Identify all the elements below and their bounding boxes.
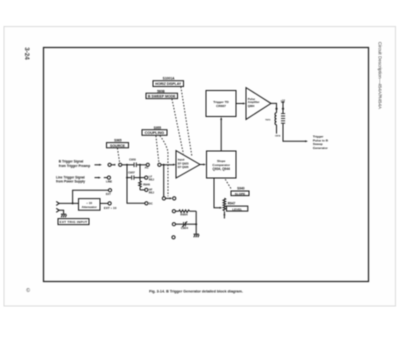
svg-text:R947: R947 [228, 202, 236, 206]
svg-text:SOURCE: SOURCE [110, 144, 126, 148]
svg-text:from Trigger Preamp: from Trigger Preamp [59, 164, 90, 168]
svg-text:from Power Supply: from Power Supply [56, 179, 85, 183]
svg-text:©: © [26, 287, 30, 294]
svg-text:LINE: LINE [106, 179, 112, 183]
svg-text:DC: DC [149, 201, 153, 205]
svg-text:HORIZ DISPLAY: HORIZ DISPLAY [155, 82, 182, 86]
svg-text:S940: S940 [237, 187, 245, 191]
svg-text:B SWEEP MODE: B SWEEP MODE [148, 95, 176, 99]
svg-text:REJ: REJ [149, 191, 155, 195]
svg-text:Generator: Generator [313, 146, 329, 150]
svg-text:S955: S955 [154, 126, 162, 130]
svg-text:Q884: Q884 [248, 104, 255, 108]
svg-text:C950: C950 [129, 158, 136, 162]
svg-text:LEVEL: LEVEL [232, 207, 242, 211]
svg-text:EXT: EXT [106, 193, 111, 196]
svg-text:R904: R904 [180, 212, 188, 216]
svg-text:AC: AC [145, 166, 149, 170]
svg-text:Circuit Description—454A/R454A: Circuit Description—454A/R454A [378, 42, 383, 110]
svg-text:Fig. 3-14. B Trigger Generator: Fig. 3-14. B Trigger Generator detailed … [149, 289, 243, 293]
svg-text:COUPLING: COUPLING [145, 131, 165, 135]
svg-text:C904: C904 [181, 226, 189, 230]
svg-text:Q934, Q944: Q934, Q944 [213, 167, 231, 171]
svg-text:EXT TRIG INPUT: EXT TRIG INPUT [60, 220, 88, 224]
svg-text:C957: C957 [128, 170, 135, 174]
svg-text:B Trigger Signal: B Trigger Signal [59, 159, 84, 163]
svg-text:Amplifier: Amplifier [248, 100, 260, 104]
svg-text:+12: +12 [280, 98, 285, 102]
svg-text:Pulse: Pulse [248, 97, 256, 101]
svg-text:T870: T870 [265, 119, 271, 121]
svg-text:EXT ÷ 10: EXT ÷ 10 [104, 206, 117, 210]
svg-text:560B: 560B [157, 89, 165, 93]
svg-text:÷ 10: ÷ 10 [86, 201, 92, 205]
svg-text:CR887: CR887 [216, 104, 226, 108]
svg-text:SLOPE: SLOPE [235, 192, 246, 196]
svg-text:EF Q923: EF Q923 [178, 161, 189, 165]
svg-text:Input: Input [178, 158, 185, 162]
svg-text:EF Q926: EF Q926 [178, 165, 189, 169]
svg-text:S1001A: S1001A [163, 76, 176, 80]
svg-text:C874: C874 [275, 134, 281, 137]
svg-text:R946: R946 [143, 182, 150, 186]
svg-text:REJ: REJ [149, 178, 155, 182]
svg-text:Attenuator: Attenuator [82, 205, 98, 209]
svg-text:3-24: 3-24 [23, 47, 30, 60]
svg-text:S965: S965 [114, 138, 122, 142]
